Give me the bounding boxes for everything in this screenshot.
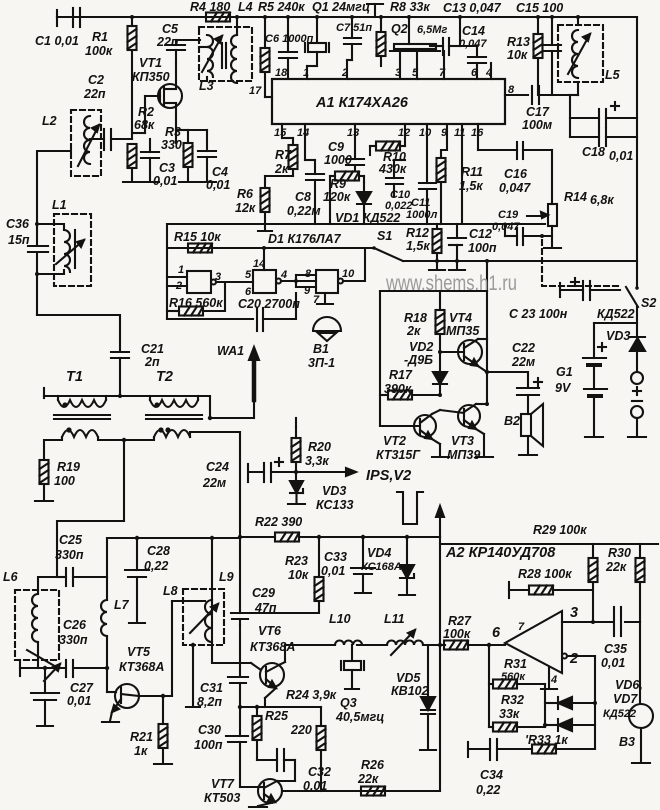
svg-text:'R33 1к: 'R33 1к (525, 733, 568, 747)
resistor R5 (261, 17, 270, 97)
svg-text:22п: 22п (156, 35, 179, 49)
diode VD7 (543, 719, 595, 731)
wire C22 node (485, 339, 528, 405)
capacitor C3 (141, 139, 159, 182)
svg-text:C24: C24 (206, 460, 229, 474)
zener VD4 (399, 537, 415, 595)
svg-text:КД522: КД522 (597, 307, 635, 321)
inductor L8 L9 assembly (172, 536, 251, 707)
svg-text:C12: C12 (469, 227, 492, 241)
svg-text:VD4: VD4 (367, 546, 391, 560)
svg-text:VD6,: VD6, (615, 678, 643, 692)
svg-text:КП350: КП350 (132, 70, 170, 84)
svg-text:-Д9Б: -Д9Б (404, 353, 433, 367)
resistor R13 (534, 17, 543, 95)
resistor R20 (292, 418, 301, 481)
resistor R30 (636, 544, 645, 622)
svg-text:1000л: 1000л (406, 209, 437, 221)
filter Q2 (390, 17, 440, 79)
svg-text:Q2: Q2 (391, 22, 408, 36)
inductor L2 (71, 110, 101, 176)
svg-text:А1 К174ХА26: А1 К174ХА26 (315, 95, 409, 111)
wire VT1 source node (175, 130, 177, 143)
svg-text:КС133: КС133 (316, 498, 353, 512)
svg-text:IPS,V2: IPS,V2 (366, 468, 411, 484)
gate D1.2 (253, 246, 316, 293)
capacitor C6 (279, 17, 297, 79)
svg-text:Q3: Q3 (340, 696, 357, 710)
audio block frame (380, 261, 487, 426)
capacitor C36 (28, 246, 48, 315)
svg-text:R12: R12 (406, 226, 429, 240)
svg-text:1: 1 (178, 264, 184, 276)
svg-text:КТ503: КТ503 (204, 791, 240, 805)
svg-text:L9: L9 (219, 570, 234, 584)
svg-text:14: 14 (253, 258, 265, 270)
svg-text:1,5к: 1,5к (459, 179, 483, 193)
svg-text:T2: T2 (156, 369, 173, 385)
transistor VT3 (440, 402, 493, 457)
svg-text:VT3: VT3 (451, 434, 474, 448)
wire rail y538 left (107, 537, 240, 539)
resistor R12 (429, 224, 445, 270)
capacitor C29 (231, 610, 249, 625)
svg-text:3: 3 (395, 67, 401, 79)
svg-text:С36: С36 (6, 217, 30, 231)
svg-text:100п: 100п (194, 738, 223, 752)
arrow IPS (296, 468, 356, 476)
capacitor C20 (167, 293, 296, 331)
svg-text:VD3: VD3 (322, 484, 346, 498)
svg-text:VT1: VT1 (139, 56, 162, 70)
diode VD3 right (630, 337, 645, 372)
gate D1.1 (167, 271, 253, 293)
wire bus x240 (239, 432, 241, 610)
svg-text:R22 390: R22 390 (255, 515, 302, 529)
svg-text:VT6: VT6 (258, 624, 282, 638)
svg-text:1000: 1000 (324, 153, 352, 167)
inductor L5 (558, 17, 603, 95)
svg-text:R9: R9 (330, 177, 346, 191)
capacitor C5 (167, 40, 200, 62)
resistor R9 (330, 172, 364, 225)
capacitor C31 (228, 625, 248, 707)
svg-text:7: 7 (518, 621, 525, 633)
svg-text:КТ315Г: КТ315Г (376, 448, 421, 462)
svg-text:L3: L3 (199, 79, 214, 93)
svg-text:C7 51п: C7 51п (336, 22, 372, 34)
svg-text:R20: R20 (308, 440, 331, 454)
svg-text:0,01: 0,01 (601, 656, 625, 670)
diode VD1 (357, 182, 371, 224)
svg-text:КТ368А: КТ368А (250, 640, 295, 654)
wire L1 to C21 (37, 315, 120, 350)
svg-text:4: 4 (485, 67, 492, 79)
svg-text:40,5мгц: 40,5мгц (335, 710, 384, 724)
svg-text:16: 16 (471, 127, 484, 139)
svg-text:100: 100 (54, 474, 75, 488)
resistor R17 (380, 391, 442, 400)
svg-text:12: 12 (398, 127, 410, 139)
potentiometer R14 (527, 204, 561, 248)
svg-text:B2: B2 (504, 414, 520, 428)
svg-text:C30: C30 (198, 723, 221, 737)
varicap VD5 (420, 645, 436, 750)
transistor VT2 (380, 410, 449, 457)
capacitor C27 (66, 660, 107, 677)
transformer T1 (44, 396, 124, 460)
svg-text:8: 8 (508, 84, 515, 96)
svg-text:9V: 9V (555, 381, 572, 395)
svg-text:R29 100к: R29 100к (533, 523, 587, 537)
svg-text:11: 11 (454, 127, 465, 139)
svg-text:R27: R27 (448, 614, 472, 628)
wire top supply rail (57, 16, 637, 18)
svg-text:17: 17 (249, 85, 262, 97)
transistor VT6 (251, 662, 285, 707)
svg-text:VD7: VD7 (613, 692, 638, 706)
svg-text:18: 18 (275, 67, 288, 79)
svg-text:R4 180: R4 180 (190, 0, 230, 14)
wire A2 left bus (439, 537, 441, 791)
svg-text:www.shems.h1.ru: www.shems.h1.ru (385, 272, 517, 295)
svg-text:9: 9 (304, 285, 311, 297)
svg-text:C17: C17 (526, 105, 550, 119)
svg-text:330п: 330п (59, 633, 88, 647)
resistor R1 (128, 17, 137, 139)
svg-text:9: 9 (441, 127, 448, 139)
speaker B2 (519, 404, 543, 455)
crystal Q1 (305, 17, 329, 79)
svg-text:R21: R21 (130, 730, 153, 744)
svg-text:КС168А: КС168А (361, 561, 402, 573)
svg-text:R31: R31 (504, 657, 527, 671)
svg-text:R6: R6 (237, 187, 254, 201)
svg-text:C34: C34 (480, 768, 503, 782)
svg-text:10к: 10к (288, 568, 309, 582)
node D1 block frame (166, 224, 168, 319)
capacitor C25 (57, 568, 107, 586)
ground stub above rail (367, 4, 383, 17)
svg-text:1к: 1к (134, 744, 148, 758)
svg-text:68к: 68к (134, 118, 155, 132)
wire A2 top rail (440, 543, 658, 545)
svg-text:C28: C28 (147, 544, 170, 558)
capacitor C14 (460, 46, 486, 79)
svg-text:R16 560к: R16 560к (169, 296, 223, 310)
svg-text:3: 3 (570, 605, 578, 621)
svg-text:15п: 15п (8, 233, 30, 247)
svg-text:33к: 33к (499, 707, 520, 721)
svg-text:МП39: МП39 (447, 448, 480, 462)
svg-text:VD5: VD5 (396, 671, 421, 685)
svg-text:L7: L7 (114, 598, 130, 612)
svg-text:R14: R14 (564, 190, 587, 204)
resistor R21 (154, 696, 172, 764)
svg-text:C21: C21 (141, 342, 164, 356)
capacitor C23 (560, 278, 620, 300)
svg-text:C13 0,047: C13 0,047 (443, 1, 502, 15)
svg-text:2п: 2п (144, 355, 160, 369)
resistor R2 (128, 144, 137, 181)
wire rail y537 (238, 535, 440, 539)
svg-text:3П-1: 3П-1 (308, 356, 335, 370)
antenna WA1 (249, 347, 259, 418)
svg-text:47п: 47п (254, 601, 277, 615)
svg-text:L1: L1 (52, 198, 67, 212)
svg-text:R19: R19 (57, 460, 80, 474)
diode VD6 (545, 697, 597, 709)
svg-text:2: 2 (175, 280, 182, 292)
svg-text:6,8к: 6,8к (590, 193, 614, 207)
svg-text:C26: C26 (63, 618, 87, 632)
transistor VT5 (102, 601, 172, 722)
svg-text:C4: C4 (212, 165, 228, 179)
svg-text:C15 100: C15 100 (516, 1, 563, 15)
svg-text:3: 3 (215, 271, 221, 283)
svg-text:6: 6 (492, 625, 501, 641)
capacitor C34 (468, 739, 497, 760)
svg-text:C5: C5 (162, 22, 179, 36)
svg-text:8,2п: 8,2п (197, 695, 222, 709)
svg-text:100к: 100к (443, 627, 471, 641)
svg-text:0,047: 0,047 (492, 221, 520, 233)
resistor R22 (275, 533, 299, 542)
svg-text:330п: 330п (55, 548, 84, 562)
wire pin17 (265, 96, 272, 98)
svg-text:13: 13 (347, 127, 359, 139)
svg-text:C9: C9 (328, 140, 344, 154)
svg-text:C35: C35 (604, 642, 628, 656)
inductor L10 (285, 641, 387, 663)
resistor R25 (240, 705, 321, 760)
capacitor C24 (248, 458, 298, 482)
capacitor C8 (305, 124, 324, 224)
resistor R7 (282, 124, 298, 176)
svg-text:R15 10к: R15 10к (174, 230, 221, 244)
capacitor C18a (570, 102, 637, 127)
svg-text:6,5Мг: 6,5Мг (417, 24, 447, 36)
inductor L11 (387, 630, 445, 655)
svg-text:0,01: 0,01 (609, 149, 633, 163)
svg-text:R26: R26 (361, 758, 385, 772)
zener VD3 KC133 (288, 481, 305, 504)
svg-text:0,22: 0,22 (476, 783, 500, 797)
svg-text:22п: 22п (83, 87, 106, 101)
svg-text:C6 1000п: C6 1000п (265, 33, 314, 45)
svg-text:WA1: WA1 (217, 344, 244, 358)
svg-text:S1: S1 (377, 229, 392, 243)
transformer T2 (122, 396, 240, 442)
svg-text:C31: C31 (200, 681, 223, 695)
wire T junction down to C25 (57, 440, 124, 577)
wire C18 column (569, 95, 571, 137)
svg-text:0,047: 0,047 (459, 38, 487, 50)
capacitor C16 (478, 124, 552, 204)
svg-text:0,01: 0,01 (321, 564, 345, 578)
wire rail y224 (167, 223, 545, 225)
resistor R16 (167, 282, 225, 316)
arrow up A2 (436, 506, 444, 537)
svg-text:VD2: VD2 (409, 340, 433, 354)
dashed link R14 to S2 (542, 240, 620, 286)
svg-text:VT2: VT2 (383, 434, 406, 448)
svg-text:R24 3,9к: R24 3,9к (286, 688, 337, 702)
svg-text:14: 14 (297, 127, 309, 139)
op-amp A2 (505, 611, 640, 689)
ground gate D1.3 pin7 (317, 293, 333, 304)
svg-text:0,22: 0,22 (144, 559, 168, 573)
capacitor C18b (570, 128, 637, 146)
svg-text:КД522: КД522 (603, 708, 636, 720)
resistor R11 (437, 124, 448, 224)
resistor R24 (317, 707, 326, 791)
resistor R19 (35, 460, 53, 501)
capacitor C13 (430, 17, 460, 55)
switch S2 (626, 286, 639, 336)
svg-text:1,5к: 1,5к (406, 239, 430, 253)
svg-text:КТ368А: КТ368А (119, 660, 164, 674)
svg-text:R18: R18 (404, 311, 427, 325)
svg-text:4: 4 (280, 269, 287, 281)
resistor R33 (497, 745, 595, 754)
svg-text:560к: 560к (501, 671, 526, 683)
capacitor C10 (386, 160, 405, 196)
wire L2 to C36 column (37, 151, 71, 245)
wire VT7 bottom rail (300, 790, 440, 792)
svg-text:12к: 12к (235, 201, 256, 215)
svg-text:L4: L4 (238, 0, 253, 14)
svg-text:120к: 120к (323, 190, 351, 204)
resistor R31 (489, 680, 545, 728)
svg-text:3,3к: 3,3к (305, 454, 329, 468)
svg-text:L6: L6 (3, 570, 19, 584)
terminal R6 (258, 224, 272, 231)
svg-text:0,22м: 0,22м (287, 204, 321, 218)
svg-text:R1: R1 (92, 30, 108, 44)
wire VT4 collector column (486, 291, 488, 339)
capacitor C9 (346, 124, 364, 171)
capacitor C19 (505, 224, 552, 245)
svg-text:8: 8 (305, 268, 312, 280)
svg-text:0,01: 0,01 (303, 779, 327, 793)
wire pin4 stub (490, 63, 492, 79)
svg-text:R3: R3 (165, 125, 181, 139)
svg-text:C19: C19 (498, 209, 519, 221)
svg-text:0,01: 0,01 (67, 694, 91, 708)
svg-text:2к: 2к (406, 324, 421, 338)
svg-text:R8 33к: R8 33к (390, 0, 430, 14)
svg-text:6: 6 (471, 67, 478, 79)
capacitor C22 (517, 378, 542, 414)
svg-text:22к: 22к (605, 560, 627, 574)
diode VD2 (433, 372, 447, 395)
capacitor C21 (111, 352, 129, 398)
capacitor C32 (257, 749, 295, 781)
svg-text:22м: 22м (511, 355, 535, 369)
earphone B1 (313, 317, 341, 341)
svg-text:МП35: МП35 (446, 324, 480, 338)
svg-text:C11: C11 (411, 197, 430, 209)
svg-text:C22: C22 (512, 341, 535, 355)
svg-text:С 23 100н: С 23 100н (509, 307, 568, 321)
inductor L7 (101, 538, 109, 670)
wire S1 input (167, 247, 374, 249)
svg-text:R32: R32 (501, 693, 524, 707)
capacitor C4 (188, 130, 216, 182)
svg-text:C27: C27 (70, 681, 94, 695)
svg-text:0,01: 0,01 (206, 178, 230, 192)
svg-text:S2: S2 (641, 296, 656, 310)
svg-text:7: 7 (439, 67, 446, 79)
microphone B3 (629, 622, 653, 763)
svg-text:1: 1 (303, 67, 309, 79)
resistor R15 (188, 244, 212, 253)
svg-text:B1: B1 (313, 342, 329, 356)
resistor R23 (240, 537, 324, 613)
resistor R6 (261, 176, 294, 224)
svg-text:L11: L11 (384, 612, 405, 626)
connector X1 (628, 372, 646, 437)
wire pin7 stub (443, 51, 445, 79)
svg-text:R5 240к: R5 240к (258, 0, 305, 14)
resistor R27 (438, 641, 505, 650)
capacitor C33 (351, 537, 375, 593)
svg-text:G1: G1 (556, 365, 573, 379)
gate D1.3 (296, 248, 365, 293)
pulse waveform (397, 492, 423, 524)
svg-text:100м: 100м (522, 118, 552, 132)
svg-text:R25: R25 (265, 709, 289, 723)
resistor R28 (509, 582, 593, 598)
capacitor C35 (614, 607, 621, 636)
capacitor C15 (543, 17, 561, 95)
svg-text:4: 4 (550, 674, 557, 686)
resistor R29 (589, 544, 598, 624)
svg-text:22м: 22м (202, 476, 226, 490)
svg-text:0,01: 0,01 (153, 174, 177, 188)
resistor R18 (436, 291, 445, 372)
capacitor C28 (125, 536, 149, 623)
svg-text:R17: R17 (389, 368, 413, 382)
switch S1 (372, 246, 403, 261)
svg-text:R23: R23 (285, 554, 308, 568)
svg-text:C1 0,01: C1 0,01 (35, 34, 79, 48)
svg-text:R11: R11 (461, 165, 483, 179)
svg-text:2: 2 (341, 67, 348, 79)
svg-text:5: 5 (412, 67, 419, 79)
capacitor C26 (31, 668, 59, 726)
svg-text:7: 7 (313, 294, 320, 306)
capacitor C2 (90, 129, 132, 150)
svg-text:R7: R7 (275, 148, 292, 162)
svg-text:VT4: VT4 (449, 311, 472, 325)
wire T1 T2 top bus (44, 388, 254, 420)
wire pin2 column (594, 656, 596, 749)
svg-text:10к: 10к (507, 48, 528, 62)
resistor R10 (370, 124, 405, 155)
capacitor C1 (57, 8, 130, 27)
capacitor C30 (226, 705, 258, 787)
capacitor C11 (419, 124, 436, 224)
svg-text:C14: C14 (462, 24, 485, 38)
transistor VT7 (249, 779, 300, 807)
resistor R8 (377, 17, 386, 66)
svg-text:VT5: VT5 (127, 645, 151, 659)
svg-text:C25: C25 (59, 533, 83, 547)
svg-text:L8: L8 (163, 584, 178, 598)
transistor VT1 (132, 62, 182, 133)
